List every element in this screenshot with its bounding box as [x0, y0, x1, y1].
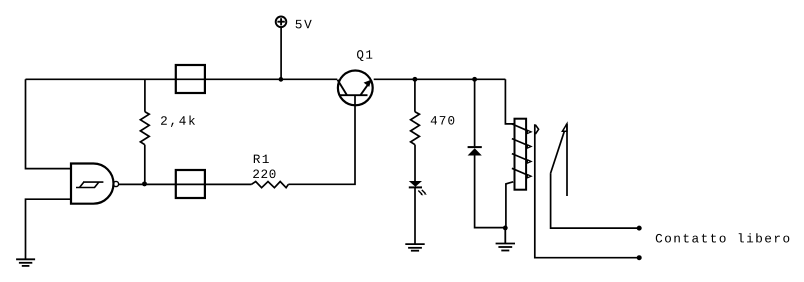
flyback diode [468, 147, 482, 155]
wire through top box [176, 78, 205, 80]
relay contact fixed post [566, 124, 568, 196]
wire resistor 470 to LED [414, 145, 416, 181]
wire contact terminal 1 [535, 124, 639, 258]
hysteresis symbol inside gate [76, 182, 103, 187]
NAND gate output inversion bubble [113, 181, 118, 186]
wire NAND output to box2 [119, 183, 176, 185]
wire left vertical from rail to gate input A [26, 79, 72, 168]
relay coil winding [512, 124, 531, 178]
relay contact blade [551, 124, 567, 173]
wire top rail left segment [26, 78, 176, 80]
terminal dot contact 1 [637, 255, 642, 260]
transistor Q1 emitter arrow [364, 80, 372, 87]
label R1 [254, 155, 269, 163]
box component on NAND output net [176, 170, 205, 198]
relay contact fixed point [535, 125, 538, 134]
LED [409, 181, 427, 195]
Schmitt NAND gate body [71, 164, 113, 204]
value label 220 [253, 170, 275, 179]
label 5V [296, 20, 312, 29]
junction dot at relay ground node [503, 226, 508, 231]
wire relay coil exit to ground node [506, 182, 513, 228]
ground under relay [496, 228, 515, 251]
value label 470 [431, 116, 455, 125]
wire diode to bottom node [475, 156, 506, 228]
wire rail down to relay coil entry [505, 79, 514, 124]
wire contact terminal 2 [551, 173, 640, 228]
junction dot at LED branch [412, 77, 417, 82]
wire emitter rail to relay branch [374, 78, 506, 80]
relay coil core [515, 119, 527, 190]
resistor 470 (vertical zigzag) [411, 112, 420, 145]
box component on top rail [176, 65, 205, 93]
relay contact blade arrowhead [562, 124, 567, 131]
resistor R1 220 (horizontal zigzag) [252, 182, 289, 188]
junction dot at diode branch [472, 77, 477, 82]
wire rail into flyback diode [474, 79, 476, 146]
junction dot at NAND output node [142, 181, 147, 186]
junction dot at 5V node [279, 77, 284, 82]
label Q1 [357, 50, 372, 61]
ground at NAND input B [16, 259, 35, 266]
wire gate input B to ground [26, 199, 72, 259]
wire rail stub into resistor 2,4k [144, 79, 146, 112]
wire R1 to transistor base [288, 95, 355, 184]
+5V supply symbol [276, 17, 287, 80]
label Contatto libero [656, 233, 790, 242]
resistor 2,4k (vertical zigzag) [140, 112, 149, 145]
wire LED to ground [414, 187, 416, 244]
wire rail box1 to transistor [205, 78, 337, 80]
transistor Q1 [338, 71, 373, 106]
wire rail into resistor 470 [414, 79, 416, 112]
wire resistor 2,4k to output node [144, 145, 146, 184]
terminal dot contact 2 [637, 226, 642, 231]
wire through lower box to R1 [176, 183, 252, 185]
value label 2,4k [161, 116, 195, 128]
ground under LED [405, 244, 424, 251]
